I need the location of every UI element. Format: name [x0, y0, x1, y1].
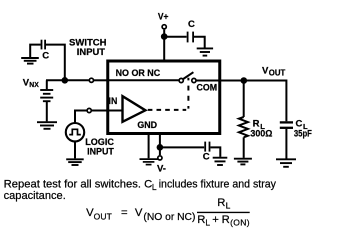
pin IN terminal circle	[87, 108, 91, 112]
svg-text:V: V	[135, 207, 143, 219]
pin NO/NC terminal circle	[89, 78, 93, 82]
capacitor C (switch input)	[42, 40, 46, 50]
node switch-input junction	[62, 77, 69, 84]
node V- junction	[157, 144, 164, 151]
wire V- to C	[160, 146, 204, 148]
capacitor C (V- bypass)	[205, 142, 209, 152]
wire C to node	[46, 45, 65, 80]
svg-text:35pF: 35pF	[294, 129, 312, 140]
svg-text:C: C	[42, 50, 49, 61]
svg-text:(NO or NC): (NO or NC)	[143, 212, 195, 223]
capacitor CL	[280, 122, 293, 127]
svg-text:R: R	[222, 214, 230, 226]
ground (GND pin)	[140, 159, 158, 165]
wire IN pin to triangle	[92, 110, 122, 112]
pulse source V2	[66, 123, 84, 141]
wire VOUT corner down	[285, 80, 287, 122]
svg-text:V+: V+	[158, 11, 169, 22]
ground (V- bypass)	[213, 158, 228, 165]
wire COM to VOUT corner	[197, 80, 287, 82]
capacitor C (V+ bypass)	[188, 32, 194, 43]
ground (RL)	[234, 159, 252, 165]
wire pulse to ground	[74, 141, 76, 158]
battery VNX	[40, 90, 53, 101]
formula fraction bar	[197, 211, 250, 213]
svg-text:INPUT: INPUT	[77, 47, 105, 58]
wire battery to ground	[46, 102, 48, 121]
svg-text:R: R	[217, 197, 225, 209]
ground (CL)	[276, 159, 296, 167]
svg-text:=: =	[121, 207, 128, 219]
svg-text:COM: COM	[197, 83, 218, 94]
svg-text:GND: GND	[137, 120, 157, 131]
svg-text:R: R	[197, 214, 205, 226]
svg-text:INPUT: INPUT	[87, 146, 114, 157]
svg-text:C: C	[203, 151, 210, 162]
svg-text:L: L	[205, 217, 210, 227]
node RL junction	[241, 77, 248, 84]
switch right contact	[192, 78, 196, 82]
svg-text:capacitance.: capacitance.	[4, 190, 66, 202]
wire RL to ground	[243, 137, 245, 158]
wire V+ vertical	[163, 30, 165, 61]
buffer amplifier	[123, 96, 146, 122]
wire C to ground	[194, 37, 205, 48]
resistor RL	[239, 117, 248, 137]
svg-text:+: +	[212, 214, 219, 226]
svg-text:V-: V-	[157, 163, 166, 174]
wire NO/NC pin to box	[94, 79, 109, 81]
wire RL branch	[243, 81, 245, 118]
svg-text:L: L	[152, 182, 157, 192]
svg-text:OUT: OUT	[269, 69, 286, 78]
svg-text:(ON): (ON)	[230, 217, 250, 227]
svg-text:NO OR NC: NO OR NC	[116, 68, 161, 79]
switch arm	[183, 72, 193, 79]
wire C to ground (V-)	[210, 147, 220, 157]
terminal V-	[158, 156, 162, 160]
wire GND pin to ground	[148, 134, 150, 158]
svg-text:L: L	[226, 201, 231, 211]
IC box U1	[108, 61, 220, 134]
ground (V+ bypass)	[197, 48, 213, 55]
wire VNX horizontal	[46, 79, 89, 81]
svg-text:NX: NX	[29, 80, 39, 89]
switch left contact	[179, 78, 183, 82]
svg-text:includes fixture and stray: includes fixture and stray	[159, 179, 277, 191]
wire V- pin	[159, 134, 161, 155]
svg-text:C: C	[188, 19, 195, 30]
ground (VNX)	[37, 122, 57, 129]
svg-text:IN: IN	[109, 96, 118, 107]
wire NO/NC to switch	[107, 79, 179, 81]
terminal V+	[162, 25, 166, 29]
node V+ junction	[161, 33, 168, 40]
wire ground to C left	[30, 45, 41, 57]
svg-text:OUT: OUT	[94, 211, 112, 221]
svg-text:300Ω: 300Ω	[250, 129, 272, 140]
wire CL to ground	[285, 129, 287, 159]
pulse waveform symbol	[69, 129, 81, 134]
ground (switch input cap)	[21, 58, 39, 64]
ground (logic input)	[66, 159, 84, 165]
dashed control line horizontal	[148, 109, 186, 111]
wire pulse to IN wire	[75, 111, 87, 123]
svg-text:Repeat test for all switches.: Repeat test for all switches. C	[4, 179, 153, 191]
dashed control line vertical	[187, 78, 189, 110]
wire VNX down to battery	[46, 80, 48, 89]
wire V+ to C	[164, 36, 186, 38]
